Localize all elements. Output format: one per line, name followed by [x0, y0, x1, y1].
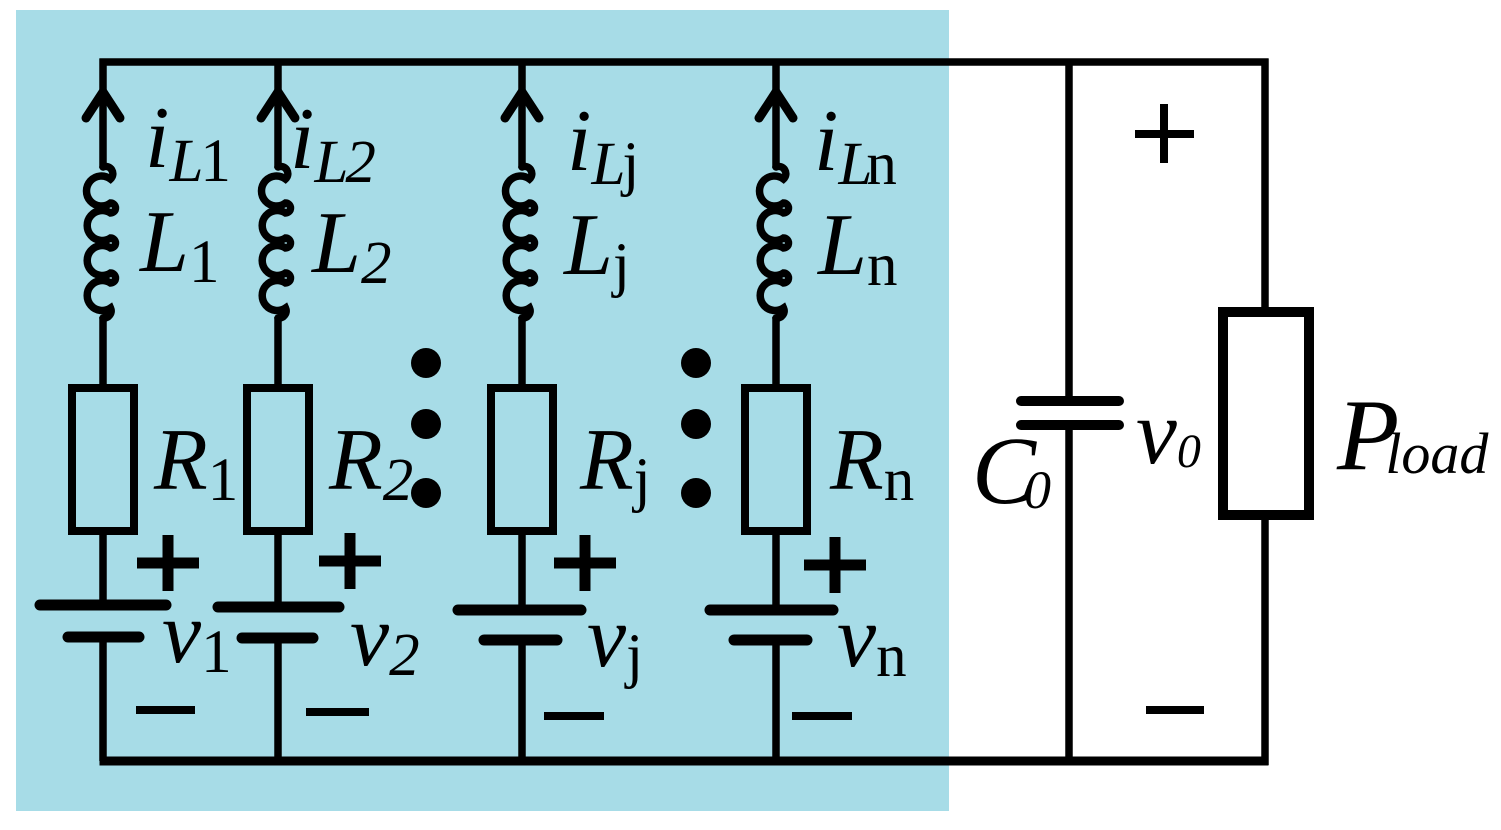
battery v1 plus sign — [137, 558, 199, 569]
v0 minus sign — [1146, 706, 1204, 714]
capacitor C0 top plate — [1021, 396, 1119, 406]
resistor R1 — [72, 388, 134, 531]
battery v1 minus sign — [136, 706, 195, 714]
wire — [99, 59, 107, 169]
capacitor C0 bottom plate — [1021, 420, 1119, 430]
battery v2 long plate — [218, 602, 339, 613]
inductor L2 — [262, 167, 291, 319]
arrow iLj — [505, 92, 539, 118]
arrow iLn — [759, 92, 793, 118]
wire — [518, 531, 526, 610]
battery vj minus sign — [544, 712, 604, 720]
wire — [1261, 59, 1269, 316]
wire — [1065, 425, 1073, 765]
wire — [274, 317, 282, 391]
battery v2 minus sign — [306, 708, 369, 716]
wire — [1065, 59, 1073, 402]
resistor R2 — [247, 388, 309, 531]
battery vj long plate — [458, 605, 581, 616]
inductor L1 — [87, 167, 116, 319]
inductor Lj — [506, 167, 535, 319]
load resistor Pload — [1223, 312, 1309, 515]
ellipsis dots column 1 — [411, 348, 441, 378]
battery vn minus sign — [792, 712, 852, 720]
resistor Rj — [491, 388, 553, 531]
wire: bottom bus — [100, 757, 1269, 766]
resistor Rn — [745, 388, 807, 531]
inductor Ln — [760, 167, 789, 319]
wire — [772, 317, 780, 391]
wire — [274, 638, 282, 761]
battery v1 long plate — [40, 600, 166, 611]
wire: top bus — [100, 58, 1269, 66]
battery vj plus sign — [554, 558, 616, 569]
wire — [274, 59, 282, 169]
wire — [99, 531, 107, 605]
wire — [518, 640, 526, 761]
battery vn plus sign — [804, 560, 866, 571]
wire — [99, 637, 107, 761]
wire — [772, 59, 780, 169]
arrow iL2 — [261, 92, 295, 118]
battery vj short plate — [484, 635, 557, 646]
battery vn long plate — [710, 605, 833, 616]
wire — [99, 317, 107, 391]
wire — [1261, 515, 1269, 765]
wire — [772, 640, 780, 761]
battery v1 short plate — [68, 632, 139, 643]
battery v2 short plate — [242, 633, 313, 644]
wire — [518, 59, 526, 169]
v0 plus sign — [1135, 130, 1194, 138]
battery v2 plus sign — [319, 556, 381, 567]
arrow iL1 — [86, 92, 120, 118]
wire — [518, 317, 526, 391]
blue highlight region — [16, 10, 949, 811]
ellipsis dots column 2 — [681, 348, 711, 378]
wire — [772, 531, 780, 610]
battery vn short plate — [734, 635, 807, 646]
wire — [274, 531, 282, 607]
